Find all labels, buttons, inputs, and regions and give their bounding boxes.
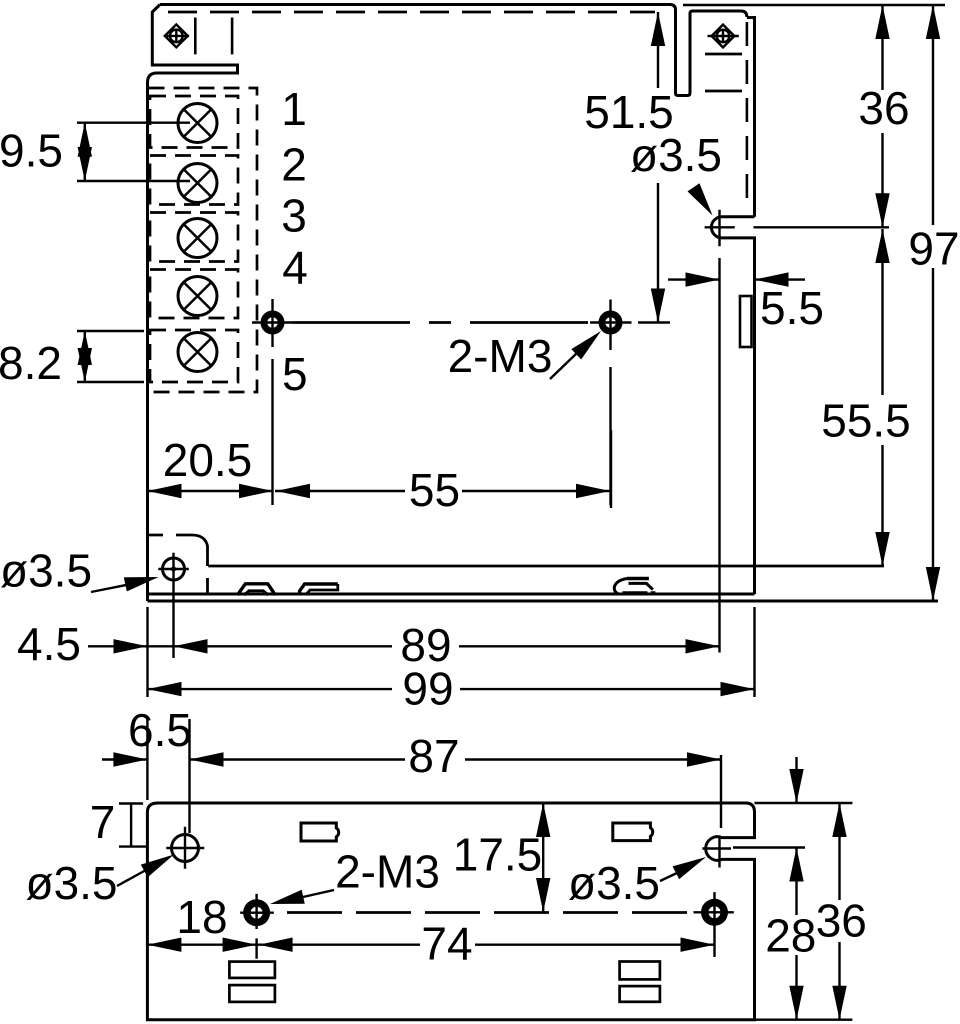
svg-text:1: 1: [281, 83, 307, 135]
svg-text:8.2: 8.2: [0, 337, 62, 389]
svg-text:36: 36: [858, 82, 909, 134]
svg-text:9.5: 9.5: [0, 124, 63, 176]
svg-text:7: 7: [90, 796, 116, 848]
svg-text:4.5: 4.5: [17, 618, 81, 670]
svg-text:4: 4: [282, 242, 308, 294]
svg-text:5: 5: [282, 348, 308, 400]
svg-text:2-M3: 2-M3: [448, 330, 553, 382]
svg-text:3: 3: [281, 189, 307, 241]
svg-text:55: 55: [409, 464, 460, 516]
svg-text:ø3.5: ø3.5: [630, 129, 722, 181]
svg-text:20.5: 20.5: [163, 434, 253, 486]
svg-text:2-M3: 2-M3: [335, 845, 440, 897]
svg-text:18: 18: [176, 891, 227, 943]
svg-text:36: 36: [816, 895, 867, 947]
svg-text:5.5: 5.5: [760, 282, 824, 334]
svg-text:ø3.5: ø3.5: [0, 545, 92, 597]
svg-text:99: 99: [402, 662, 453, 714]
svg-text:17.5: 17.5: [453, 828, 543, 880]
svg-text:ø3.5: ø3.5: [568, 857, 660, 909]
svg-text:6.5: 6.5: [128, 704, 192, 756]
svg-text:55.5: 55.5: [821, 395, 911, 447]
svg-text:74: 74: [421, 918, 472, 970]
svg-text:28: 28: [765, 910, 816, 962]
svg-text:ø3.5: ø3.5: [25, 857, 117, 909]
svg-text:87: 87: [408, 730, 459, 782]
svg-text:97: 97: [908, 222, 959, 274]
svg-text:2: 2: [281, 138, 307, 190]
